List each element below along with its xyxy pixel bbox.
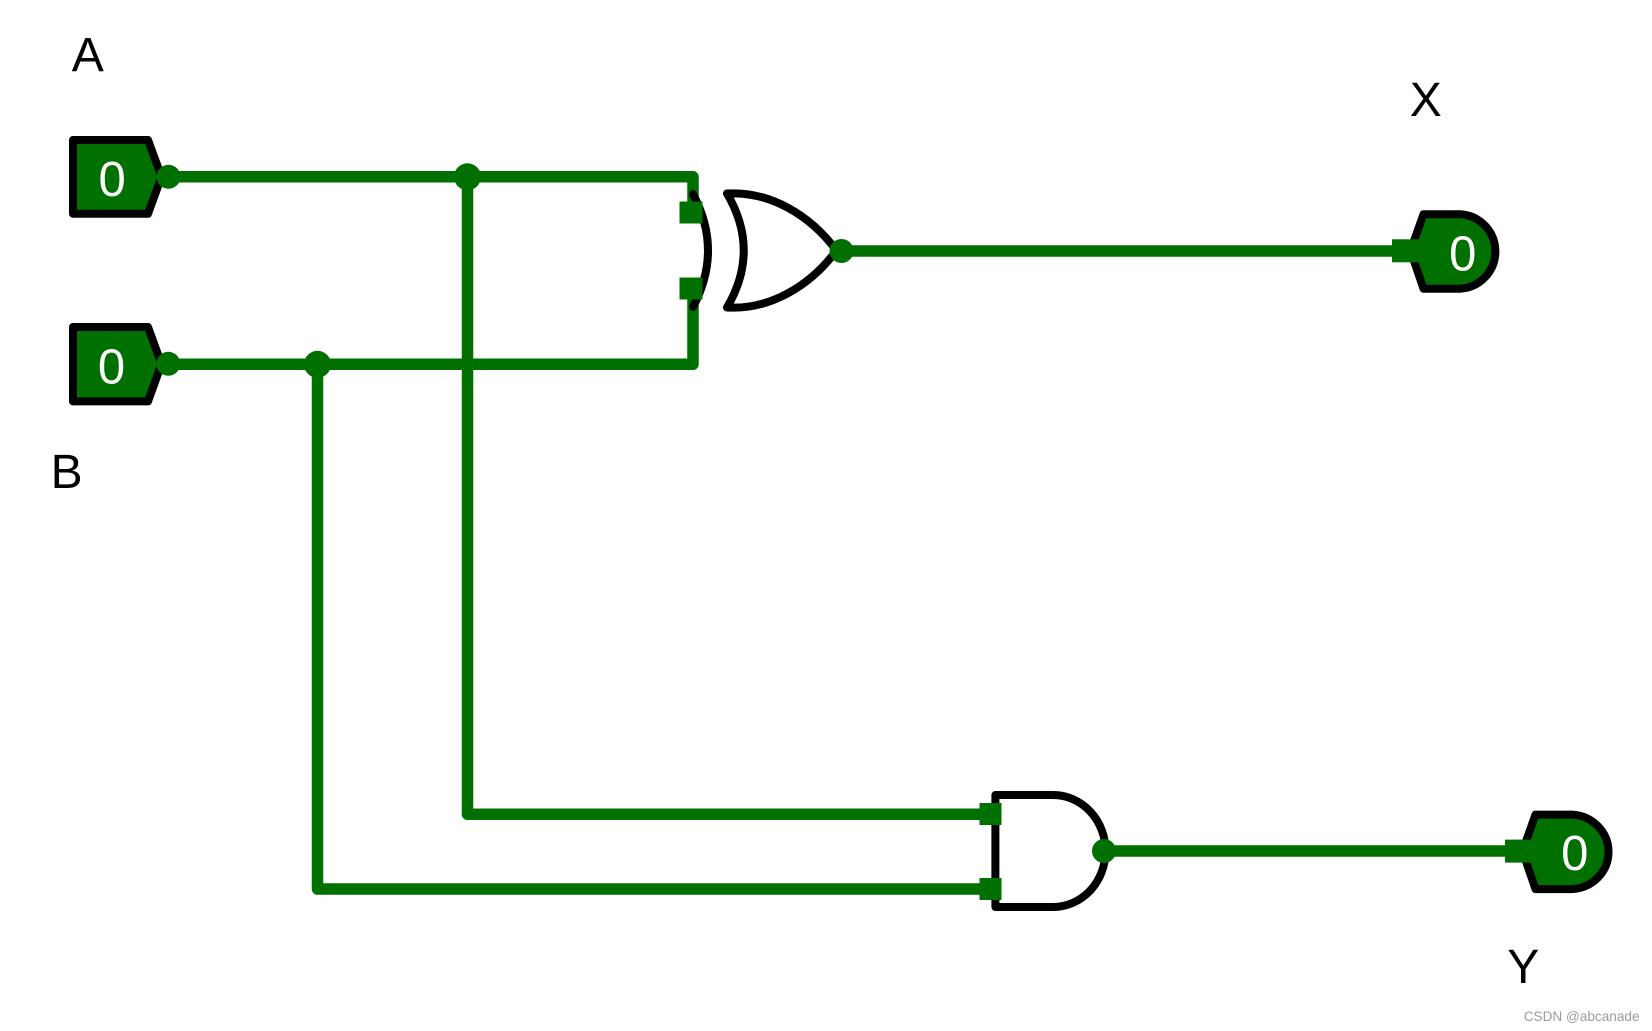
svg-text:B: B [51, 446, 83, 499]
svg-text:CSDN @abcanade: CSDN @abcanade [1524, 1009, 1640, 1024]
and gate U2 body [995, 795, 1105, 907]
svg-text:Y: Y [1507, 941, 1539, 994]
node B junction [304, 351, 331, 378]
output X body [1411, 214, 1496, 289]
node A junction [454, 163, 481, 190]
wire XOR output to output X [842, 245, 1401, 257]
xor gate U1 back arc [693, 194, 708, 307]
wire A horizontal from input A to XOR top input [168, 177, 693, 213]
svg-text:X: X [1410, 74, 1442, 127]
output Y [1505, 815, 1609, 890]
input B body [73, 327, 162, 401]
xor gate U1 body [727, 193, 837, 307]
svg-text:0: 0 [1449, 228, 1476, 282]
output Y input pin stub [1505, 840, 1539, 863]
svg-text:A: A [72, 29, 104, 82]
xor input stub top [680, 202, 703, 224]
output Y body [1523, 815, 1609, 890]
xor output node [830, 239, 854, 263]
input A [73, 140, 181, 214]
and input stub top [980, 803, 1002, 825]
wire from node B junction down to AND gate bottom input [318, 364, 991, 889]
wire AND output to output Y [1104, 845, 1513, 857]
input B output pin node [156, 352, 180, 376]
and output node [1092, 839, 1116, 863]
input A body [73, 140, 162, 214]
svg-text:0: 0 [98, 153, 125, 207]
and input stub bottom [980, 878, 1002, 900]
svg-text:0: 0 [1561, 827, 1588, 881]
wire B horizontal from input B to XOR bottom input [168, 288, 693, 364]
wire from node A junction down to AND gate top input [468, 177, 991, 815]
output X input pin stub [1392, 239, 1426, 262]
svg-text:0: 0 [98, 340, 125, 394]
output X [1392, 214, 1495, 289]
xor input stub bottom [680, 278, 703, 300]
input A output pin node [157, 165, 181, 189]
input B [73, 327, 180, 401]
